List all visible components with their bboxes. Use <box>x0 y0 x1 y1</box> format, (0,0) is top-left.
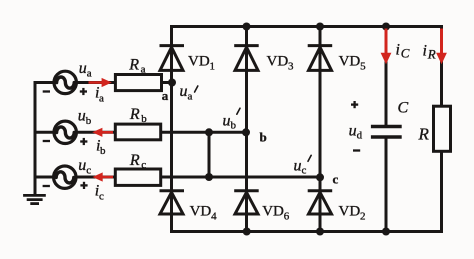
svg-text:a: a <box>162 88 169 103</box>
svg-text:C: C <box>398 100 409 117</box>
svg-text:R: R <box>129 106 140 123</box>
svg-text:VD: VD <box>339 54 361 70</box>
svg-text:u: u <box>78 157 86 174</box>
svg-text:VD: VD <box>262 204 284 220</box>
svg-text:b: b <box>141 113 147 125</box>
svg-text:c: c <box>302 165 307 177</box>
svg-text:2: 2 <box>360 210 366 222</box>
svg-text:u: u <box>78 107 86 124</box>
svg-text:R: R <box>128 57 139 74</box>
svg-text:VD: VD <box>188 54 210 70</box>
svg-text:b: b <box>231 120 237 132</box>
svg-text:5: 5 <box>360 61 366 73</box>
svg-text:c: c <box>141 159 146 171</box>
svg-text:C: C <box>401 46 410 61</box>
svg-text:d: d <box>357 130 363 142</box>
svg-text:a: a <box>99 92 104 104</box>
svg-text:u: u <box>180 83 188 100</box>
svg-text:b: b <box>100 145 106 157</box>
svg-text:c: c <box>86 165 91 177</box>
svg-text:R: R <box>418 125 430 144</box>
svg-text:a: a <box>87 68 92 80</box>
svg-text:4: 4 <box>211 210 217 222</box>
svg-text:1: 1 <box>210 61 216 73</box>
svg-text:c: c <box>99 190 104 202</box>
svg-text:R: R <box>129 152 140 169</box>
svg-text:a: a <box>141 63 146 75</box>
svg-text:R: R <box>427 47 436 62</box>
svg-text:VD: VD <box>190 204 212 220</box>
svg-text:3: 3 <box>288 61 294 73</box>
svg-text:i: i <box>396 42 400 59</box>
svg-text:c: c <box>333 172 339 187</box>
svg-text:VD: VD <box>267 54 289 70</box>
svg-text:i: i <box>423 43 427 60</box>
svg-text:u: u <box>79 60 87 77</box>
svg-text:u: u <box>294 157 302 174</box>
svg-text:6: 6 <box>284 210 290 222</box>
svg-text:u: u <box>349 123 357 140</box>
svg-text:a: a <box>188 90 193 102</box>
svg-text:u: u <box>223 113 231 130</box>
svg-text:b: b <box>260 130 267 145</box>
svg-text:VD: VD <box>339 204 361 220</box>
svg-text:b: b <box>86 115 92 127</box>
